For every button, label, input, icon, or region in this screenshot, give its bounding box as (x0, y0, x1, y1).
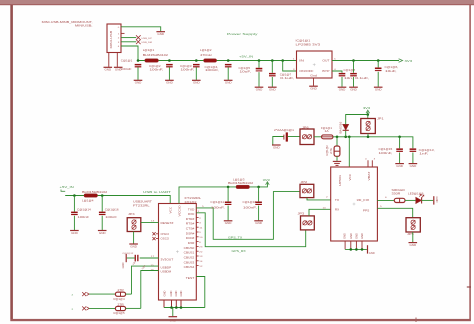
pin stubs FT232 gnd (164, 300, 181, 308)
capacitor C@1@9 label (355, 76, 369, 80)
resistor R@1@5 (115, 306, 125, 310)
svg-text:R@1@5: R@1@5 (114, 311, 126, 315)
wire C@1@14 to gnd (73, 216, 75, 230)
origin marker U1 (176, 250, 179, 253)
pin number 2 GPS TX (326, 197, 329, 199)
capacitor C@1@4 (225, 64, 232, 67)
svg-text:RESET#: RESET# (161, 221, 175, 225)
svg-text:CBUS0: CBUS0 (184, 246, 195, 250)
ground GND C@1@8 (338, 87, 347, 91)
ferrite bead L@1@3 (236, 185, 250, 188)
wire 3V3 to JP1 (367, 115, 369, 119)
svg-text:R@1@4: R@1@4 (114, 297, 126, 301)
svg-text:C@1@11: C@1@11 (210, 200, 224, 204)
svg-text:2: 2 (199, 218, 201, 220)
ferrite bead L@1@2 (204, 59, 217, 62)
jumper JP1 (361, 119, 376, 134)
jumper JP6 (300, 129, 314, 145)
svg-text:VCC: VCC (169, 207, 173, 214)
capacitor C@1@3 (193, 64, 200, 67)
ferrite L@1@4 labels (82, 190, 108, 202)
pin stubs FT232 unconnected (196, 218, 198, 266)
op-amp IC@1@1 labels (296, 38, 321, 46)
svg-text:0.1uF,: 0.1uF, (280, 76, 294, 80)
svg-text:VCCIO: VCCIO (177, 205, 181, 216)
svg-text:2*AAA@1@1: 2*AAA@1@1 (274, 128, 295, 132)
svg-text:LP2985 3V3: LP2985 3V3 (296, 43, 321, 47)
wire USBDM (141, 271, 159, 309)
wire jumper to fuse (314, 136, 322, 138)
ground GND C@1@1 (134, 80, 143, 84)
wire GPS gnd bus (345, 248, 367, 250)
wire C@1@10 drop (258, 187, 260, 202)
led LED@1@6 (416, 194, 424, 203)
ferrite bead L@1@4 (84, 194, 98, 197)
wire USB mount tab 1 (108, 53, 110, 67)
wire R@1@4 up (126, 293, 132, 295)
wire 5V_IN rail lower (65, 196, 170, 204)
wire rail to C@1@9 (353, 61, 355, 73)
label GPS_RX (232, 249, 246, 253)
svg-text:GND: GND (350, 233, 353, 239)
wire C@1@2 to gnd (168, 67, 170, 80)
svg-text:FT232RL: FT232RL (185, 196, 202, 200)
svg-text:GND: GND (122, 262, 125, 268)
resistor R@1@3 (394, 198, 405, 202)
svg-text:14: 14 (199, 261, 202, 263)
supply arrow 3V3 uart (263, 178, 271, 185)
ground GND C@1@9 (349, 87, 358, 91)
wire C@1@8 to gnd (341, 77, 343, 87)
label flag row2 (72, 306, 90, 311)
svg-text:10uF,: 10uF, (385, 69, 397, 73)
capacitor C@1@12 rotated (122, 253, 138, 261)
svg-text:100nF,: 100nF, (205, 68, 219, 72)
svg-text:GND: GND (273, 145, 280, 149)
ground GND rotated LED (434, 196, 438, 204)
wire 3D_FIX to R@1@3 (377, 199, 394, 201)
svg-text:+5V_IN: +5V_IN (60, 185, 74, 189)
svg-text:RI#: RI# (188, 241, 195, 245)
svg-text:GPS_TX: GPS_TX (228, 236, 242, 240)
svg-text:F@1@1: F@1@1 (321, 126, 333, 130)
svg-text:DTR#: DTR# (186, 217, 195, 221)
capacitor C@1@3 label (180, 64, 195, 71)
svg-text:100nF: 100nF (120, 67, 132, 71)
wire regulator GND (313, 78, 315, 86)
svg-text:23: 23 (199, 247, 202, 249)
capacitor C@1@15 (396, 148, 403, 152)
battery BAT@1@1 label (274, 128, 295, 132)
jumper JP3 (301, 216, 315, 230)
capacitor C@1@14 label (77, 207, 91, 219)
junction C@1@3 (195, 59, 198, 62)
wire rail to C@1@5 (258, 61, 260, 68)
svg-text:1A: 1A (325, 130, 330, 133)
ground GND FT232 (169, 317, 178, 323)
resistor R@1@4 labels (114, 289, 126, 301)
svg-text:GPS_RX: GPS_RX (232, 249, 246, 253)
svg-text:GND: GND (369, 252, 375, 255)
jumper JP2 (300, 184, 314, 197)
svg-text:13: 13 (199, 256, 202, 258)
ground GND C@1@4 (224, 80, 233, 84)
ground GND C@1@13 (409, 164, 418, 168)
svg-text:22: 22 (199, 251, 202, 253)
ground GND C@1@14 (70, 231, 79, 235)
svg-text:GND: GND (269, 88, 276, 92)
ground GND rotated 3V3OUT (122, 254, 126, 269)
svg-text:3V3: 3V3 (363, 106, 371, 110)
connector X1 mini-USB label (42, 20, 93, 28)
svg-text:UP501: UP501 (338, 174, 342, 186)
ground GND JP5 (409, 243, 418, 247)
connector X1 mini-USB body (107, 24, 121, 53)
wire JP4 to gnd (133, 232, 135, 244)
svg-text:CTS#: CTS# (186, 227, 195, 231)
junction gps gnd1 (350, 248, 353, 251)
label Power Supply (227, 32, 258, 36)
svg-text:2: 2 (118, 38, 120, 40)
wire VBAT to GPS VCC (348, 137, 350, 167)
wire LED to gnd (422, 199, 434, 201)
wire cap to rot gnd (127, 257, 135, 259)
wire PPS to JP5 (377, 208, 412, 217)
svg-text:USBDM: USBDM (161, 270, 172, 274)
label USB to UART (143, 190, 171, 194)
svg-text:GND: GND (104, 68, 111, 72)
svg-text:4: 4 (118, 46, 120, 48)
svg-text:4: 4 (365, 159, 367, 161)
svg-text:L@1@1: L@1@1 (143, 48, 155, 52)
svg-text:RTS#: RTS# (186, 222, 195, 226)
svg-text:CBUS3: CBUS3 (184, 260, 195, 264)
junction C@1@2 (168, 59, 171, 62)
junction diode bottom (344, 136, 347, 139)
ic U1 FT232RL body (159, 204, 197, 301)
wire C@1@5 to gnd (258, 72, 260, 87)
svg-text:GND: GND (435, 197, 438, 203)
wire diode cathode to 3V3 (346, 112, 368, 125)
label FT232RL value (185, 196, 202, 204)
wire 3V3OUT to cap (140, 257, 159, 259)
ground GND C@1@5 (255, 87, 264, 91)
ground GND C@1@16 (98, 231, 107, 235)
svg-text:GND: GND (163, 290, 166, 296)
wire USB mount tab 2 (116, 53, 118, 67)
svg-text:PPS: PPS (363, 208, 370, 212)
svg-text:BAS316: BAS316 (340, 121, 343, 134)
svg-text:CBUS1: CBUS1 (184, 251, 195, 255)
pin stub GPS VBAT2 (371, 160, 373, 167)
wire USB VBUS down to 5V rail (121, 46, 138, 61)
svg-text:JP4: JP4 (128, 212, 135, 216)
capacitor C@1@6 label (385, 65, 399, 73)
junction C@1@15 top (398, 136, 401, 139)
supply arrow 3V3 battery (363, 106, 371, 113)
svg-text:330R: 330R (392, 191, 401, 195)
wire 5V filter rail (138, 60, 297, 62)
wire JP4 to RESET# (141, 221, 159, 223)
svg-text:USB2UART: USB2UART (133, 199, 152, 203)
svg-text:GND: GND (310, 87, 317, 91)
pin OSCO noconnect (152, 237, 158, 240)
wire rail to C@1@6 (377, 61, 379, 68)
ground GND battery (272, 145, 281, 149)
svg-text:IC@1@1: IC@1@1 (296, 38, 311, 42)
resistor R@1@2 (334, 146, 340, 156)
ground GND C@1@3 (192, 80, 201, 84)
svg-text:DSR#: DSR# (186, 231, 195, 235)
svg-text:GND: GND (225, 81, 232, 85)
capacitor C@1@2 label (149, 64, 164, 71)
svg-text:OUT: OUT (322, 59, 329, 63)
label USB_DM flag (136, 40, 152, 45)
wire to R@1@2 (336, 137, 338, 146)
svg-text:FT232RL: FT232RL (133, 204, 150, 208)
svg-text:C@1@10: C@1@10 (243, 200, 257, 204)
resistor R@1@3 labels (392, 188, 405, 196)
svg-text:CBUS2: CBUS2 (184, 256, 195, 260)
wire battery to jumper (288, 136, 300, 138)
svg-text:100nF,: 100nF, (379, 151, 393, 155)
capacitor C@1@5 label (239, 66, 252, 74)
pin number 5 RXD (202, 206, 205, 208)
ground GND C@1@11 (224, 221, 233, 225)
wire C@1@1 to gnd (137, 67, 139, 80)
label USBDM net rot (142, 264, 147, 270)
ground GND mount1 (104, 67, 113, 71)
svg-text:L@1@4: L@1@4 (82, 199, 94, 203)
junction C@1@5 (258, 59, 261, 62)
svg-text:TXD: TXD (188, 207, 195, 211)
wire rail to C@1@7 (271, 61, 273, 73)
ferrite bead L@1@1 (145, 59, 159, 62)
svg-text:9: 9 (199, 232, 201, 234)
svg-text:10: 10 (199, 237, 202, 239)
wire USB D+ net (121, 37, 136, 39)
wire battery left to gnd (273, 137, 284, 145)
capacitor C@1@14 (71, 212, 78, 215)
svg-text:OSCO: OSCO (161, 237, 170, 241)
wire C@1@9 to gnd (353, 77, 355, 87)
svg-text:10n,: 10n, (344, 76, 354, 80)
svg-text:GND: GND (225, 221, 232, 225)
wire diode anode (345, 131, 347, 137)
junction 3V3/JP1 (367, 113, 370, 116)
svg-text:MINIUSB,: MINIUSB, (75, 24, 93, 28)
capacitor C@1@16 (99, 212, 106, 215)
wire 3V3 VCCIO net (179, 182, 267, 204)
svg-text:VCC: VCC (348, 174, 352, 181)
ground GND regulator (309, 86, 318, 90)
svg-text:MINI-USB-MINB_MIDMOUNT,: MINI-USB-MINB_MIDMOUNT, (42, 20, 93, 24)
svg-text:3: 3 (118, 42, 120, 44)
svg-text:C@1@14: C@1@14 (77, 207, 91, 211)
fuse F@1@1 (322, 135, 334, 139)
capacitor C@1@8 label (344, 68, 356, 80)
svg-text:JP2: JP2 (301, 180, 308, 184)
svg-text:GND: GND (375, 88, 382, 92)
ferrite L@1@1 labels (143, 48, 169, 57)
diode D@1@1 (343, 124, 349, 130)
ground GND C@1@10 (254, 221, 263, 225)
svg-text:RXD: RXD (188, 212, 195, 216)
pin OSCI noconnect (152, 232, 158, 235)
svg-text:BLM15HB4102: BLM15HB4102 (228, 181, 254, 185)
svg-text:GND: GND (255, 221, 262, 225)
capacitor C@1@11 label (210, 200, 225, 209)
svg-text:GND: GND (170, 318, 177, 322)
junction C@1@14 (73, 194, 76, 197)
pin number 6 3D_FIX (385, 197, 388, 199)
capacitor C@1@6 (375, 68, 382, 72)
regulator IC@1@1 LP2985 (293, 51, 337, 78)
wire C@1@6 to gnd (377, 72, 379, 87)
wire BYP to C@1@8 (332, 71, 342, 73)
svg-text:GND: GND (339, 88, 346, 92)
junction gps gnd2 (355, 248, 358, 251)
ground GND mount2 (114, 67, 123, 71)
wire R@1@3 to LED (405, 199, 416, 201)
svg-text:MINI-USB: MINI-USB (109, 30, 113, 48)
svg-text:GND: GND (350, 88, 357, 92)
capacitor C@1@11 (225, 202, 232, 206)
svg-text:3V3OUT: 3V3OUT (161, 257, 174, 261)
capacitor C@1@16 label (105, 207, 119, 219)
svg-text:100nF,: 100nF, (181, 67, 195, 71)
svg-text:JP1: JP1 (377, 116, 384, 120)
jumper JP5 label (407, 232, 414, 236)
svg-text:GND: GND (166, 81, 173, 85)
wire JP2 to GPS TX (307, 198, 331, 200)
capacitor C@1@10 (255, 202, 262, 206)
svg-text:GND: GND (157, 32, 164, 36)
label GPS_TX (228, 236, 242, 240)
label USB_DP flag (136, 35, 153, 40)
junction C@1@7 (271, 59, 274, 62)
svg-text:C@1@16: C@1@16 (105, 207, 119, 211)
svg-text:GND: GND (256, 88, 263, 92)
pin stub RXD wire (196, 192, 300, 240)
wire C@1@13 to gnd (412, 153, 414, 164)
svg-text:0.1uF,: 0.1uF, (355, 76, 369, 80)
pin stub GPS VBAT1 (367, 160, 369, 167)
junction C@1@9 (352, 59, 355, 62)
ground GND C@1@15 (395, 164, 404, 168)
wire C@1@16 to gnd (101, 216, 103, 230)
junction gps gnd3 (361, 248, 364, 251)
svg-text:GND: GND (193, 81, 200, 85)
svg-text:GND: GND (396, 164, 403, 168)
pin stub USB pin1 (121, 32, 125, 34)
svg-text:C@1@12: C@1@12 (122, 253, 134, 255)
svg-text:GND: GND (180, 290, 183, 296)
svg-text:11: 11 (199, 227, 202, 229)
wire ON/OFF feed (283, 61, 297, 72)
ground GND JP4 (129, 244, 138, 248)
capacitor C@1@4 label (205, 65, 220, 72)
svg-text:3D_FIX: 3D_FIX (357, 198, 370, 202)
svg-text:BYP: BYP (322, 69, 329, 73)
pin stub TXD wire (196, 213, 305, 247)
ferrite L@1@3 labels (228, 178, 254, 185)
svg-text:GND: GND (170, 290, 173, 296)
svg-text:GND: GND (409, 243, 416, 247)
svg-text:IN: IN (299, 59, 304, 63)
wire gnd bus drop (172, 308, 174, 317)
ground GND C@1@6 (374, 87, 383, 91)
wire R@1@2 to gnd (336, 156, 338, 161)
diode D@1@1 label (340, 121, 343, 134)
wire C@1@7 to gnd (271, 77, 273, 87)
wire row1 to R@1@4 (89, 293, 115, 295)
svg-text:100nF,: 100nF, (211, 205, 225, 209)
capacitor C@1@1 (135, 64, 142, 67)
resistor R@1@5 labels (114, 303, 126, 315)
wire TEST to gnd bus (196, 277, 205, 308)
junction cap C@1@1 (137, 59, 140, 62)
svg-text:USB_DP: USB_DP (142, 38, 153, 40)
svg-text:RX: RX (335, 207, 340, 211)
svg-text:JP5: JP5 (407, 232, 414, 236)
pin number 13 RESET (151, 220, 156, 222)
svg-text:CBUS4: CBUS4 (184, 265, 195, 269)
pin numbers FT232 right (199, 218, 202, 268)
wire C@1@11 to gnd (227, 206, 229, 221)
svg-text:GND: GND (361, 233, 364, 239)
pin number 1 TXD (198, 211, 201, 213)
wire C@1@15 to gnd (399, 153, 401, 164)
junction fuse out (336, 136, 339, 139)
origin marker U2 (353, 203, 356, 206)
resistor R@1@2 label (326, 145, 333, 156)
svg-text:GND: GND (99, 231, 106, 235)
capacitor C@1@7 (269, 73, 276, 76)
junction JP1 bottom (367, 136, 370, 139)
wire USB shield to GND (121, 27, 161, 31)
pin number 5 PPS (380, 206, 383, 208)
junction C@1@4 (227, 59, 230, 62)
jumper JP1 label (377, 116, 384, 120)
svg-text:Gnd: Gnd (310, 74, 317, 78)
ground GND C@1@7 (268, 87, 277, 91)
svg-text:C@1@15: C@1@15 (379, 147, 393, 151)
label USBDP net rot (132, 260, 137, 266)
svg-text:USB_DM: USB_DM (142, 42, 153, 44)
pin stubs GPS gnd (345, 241, 362, 249)
ic U2 GPS module body (331, 167, 378, 241)
svg-text:100nF: 100nF (105, 215, 117, 219)
label +5V_IN net (239, 55, 253, 59)
pin numbers GPS top (365, 159, 375, 161)
pin number 16 USBDM (151, 269, 156, 271)
junction ON/OFF (281, 59, 284, 62)
wire C@1@4 to gnd (227, 67, 229, 80)
wire C@1@14 drop (73, 196, 75, 212)
wire row2 to R@1@5 (89, 307, 115, 309)
svg-text:+5V_IN: +5V_IN (239, 55, 253, 59)
svg-text:GND: GND (175, 290, 178, 296)
capacitor C@1@13 label (419, 148, 435, 156)
resistor R@1@4 (115, 292, 125, 296)
wire USBDP (132, 266, 159, 294)
svg-text:GND: GND (410, 164, 417, 168)
svg-text:USBDP: USBDP (161, 265, 172, 269)
junction gnd bus 3 (180, 306, 183, 309)
svg-text:GND: GND (355, 233, 358, 239)
svg-text:3V3: 3V3 (263, 178, 271, 182)
